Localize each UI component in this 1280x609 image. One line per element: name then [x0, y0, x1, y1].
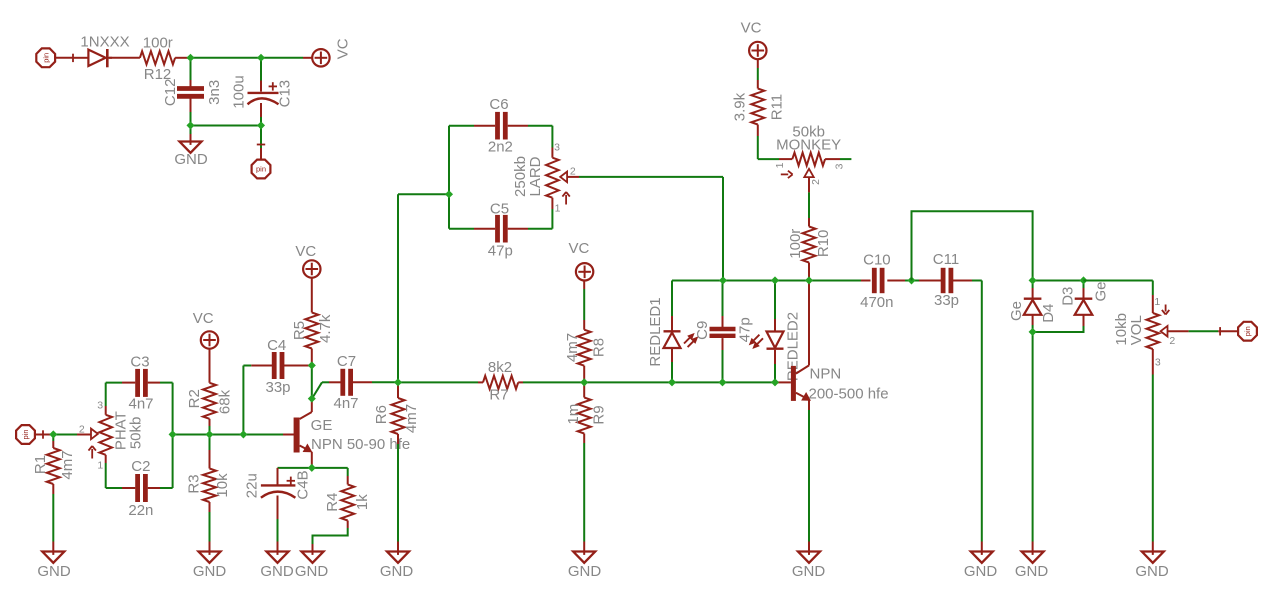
- capacitor C11 33p: [933, 251, 959, 309]
- wire bus to GE base: [243, 434, 283, 436]
- ground GND (diodes): [1015, 552, 1049, 581]
- svg-text:33p: 33p: [934, 292, 959, 309]
- svg-text:R8: R8: [590, 338, 607, 357]
- ground GND (VOL): [1135, 552, 1169, 581]
- svg-text:C7: C7: [337, 353, 356, 370]
- wire R12 to node VC1: [175, 57, 190, 59]
- wire bus segment C9-REDLED2: [723, 381, 776, 383]
- svg-text:MONKEY: MONKEY: [776, 137, 841, 154]
- capacitor C10 470n: [860, 252, 893, 312]
- wire long vertical to C7/R6 node: [397, 194, 399, 382]
- potentiometer PHAT 50kb: [79, 399, 145, 471]
- svg-text:R5: R5: [291, 321, 308, 340]
- wire left side of C6/C5 loop: [448, 126, 450, 229]
- svg-text:VC: VC: [335, 38, 352, 59]
- svg-text:NPN: NPN: [810, 366, 842, 383]
- wire LARD pin1 down: [551, 198, 553, 209]
- svg-text:1NXXX: 1NXXX: [80, 34, 129, 51]
- svg-text:C11: C11: [933, 251, 959, 268]
- wire input node to PHAT wiper: [53, 434, 77, 436]
- wire rail to GND symbol: [190, 126, 192, 135]
- wire node down to C12: [190, 58, 192, 80]
- wire collector node vertical: [311, 366, 313, 399]
- resistor R5 4.7k: [291, 313, 334, 349]
- wire rail down to R4: [347, 468, 349, 476]
- capacitor C4B 22u polarized: [244, 470, 312, 499]
- junction node at C13 top: [257, 54, 265, 62]
- wire ground rail: [191, 125, 262, 127]
- capacitor C3 4n7: [128, 353, 153, 412]
- svg-text:1m: 1m: [565, 404, 582, 425]
- svg-text:470n: 470n: [860, 294, 893, 311]
- ground GND (R4): [295, 552, 329, 581]
- wire rail down to output pin: [260, 126, 262, 149]
- svg-text:100u: 100u: [230, 75, 247, 108]
- wire C5 right lead: [528, 228, 552, 230]
- svg-text:pin: pin: [21, 429, 30, 439]
- junction node C4 branch: [239, 430, 247, 438]
- svg-text:2: 2: [79, 424, 85, 436]
- ground GND (R3): [193, 552, 227, 581]
- junction node at C12 bottom: [186, 121, 194, 129]
- svg-text:4n7: 4n7: [333, 395, 358, 412]
- wire C5 left lead: [474, 228, 495, 230]
- junction node diode bottoms: [1029, 328, 1037, 336]
- svg-text:R1: R1: [32, 455, 49, 474]
- wire REDLED2 to bus: [774, 350, 776, 364]
- junction node C4/R5: [308, 361, 316, 369]
- svg-text:VOL: VOL: [1128, 315, 1145, 345]
- wire VOL wiper to output pin: [1168, 330, 1189, 332]
- svg-text:GND: GND: [37, 563, 71, 580]
- wire C4 right lead: [284, 365, 312, 367]
- svg-text:D3: D3: [1060, 287, 1077, 306]
- svg-text:1k: 1k: [354, 494, 371, 510]
- junction node at C13 bottom: [257, 121, 265, 129]
- capacitor C5 47p: [488, 200, 513, 259]
- wire D3 bottom to node: [1083, 315, 1085, 326]
- resistor R10 100r: [787, 227, 832, 263]
- wire bus into C10: [861, 280, 871, 282]
- potentiometer LARD 250kb: [512, 141, 579, 214]
- wire bus segment REDLED1-C9: [672, 381, 723, 383]
- wire signal bus PHAT net to R2 node: [173, 434, 210, 436]
- wire C13 to ground rail: [260, 103, 262, 117]
- wire PHAT pin1 down to C2 row: [105, 455, 107, 463]
- wire LARD wiper to mixer bus: [579, 176, 723, 178]
- junction node at R12/VC: [186, 54, 194, 62]
- junction node emitter: [308, 464, 316, 472]
- led REDLED1: [647, 297, 698, 366]
- svg-text:GND: GND: [260, 563, 294, 580]
- wire VOL pin3 to GND: [1152, 349, 1154, 375]
- svg-text:Ge: Ge: [1093, 281, 1110, 301]
- resistor R8 4m7: [564, 330, 608, 366]
- wire bus R8 node to REDLED1 node: [584, 381, 672, 383]
- potentiometer MONKEY 50kb: [774, 124, 846, 185]
- wire feedback tap up and over to diode node: [912, 211, 1033, 280]
- svg-text:C9: C9: [694, 321, 711, 340]
- svg-text:2: 2: [1169, 335, 1175, 347]
- svg-text:GND: GND: [1015, 563, 1049, 580]
- wire bus R6 node to R7: [398, 381, 478, 383]
- junction node C9 bottom: [718, 378, 726, 386]
- wire C11 right lead down to GND: [952, 280, 972, 282]
- svg-text:4m7: 4m7: [403, 404, 420, 433]
- svg-text:GND: GND: [1135, 563, 1169, 580]
- svg-text:3: 3: [1155, 357, 1161, 369]
- capacitor C7 4n7: [333, 353, 358, 412]
- wire to LARD pin 3: [551, 126, 553, 148]
- ground GND (C4B): [260, 552, 294, 581]
- capacitor C9 47p: [694, 317, 754, 342]
- wire R7 to R8 node: [518, 381, 523, 383]
- wire VC to R11: [757, 59, 759, 68]
- svg-text:R9: R9: [590, 405, 607, 424]
- supply VC (R8 top): [568, 240, 593, 280]
- svg-text:8k2: 8k2: [488, 359, 512, 376]
- svg-text:47p: 47p: [736, 317, 753, 342]
- wire diode node to D4: [1032, 281, 1034, 289]
- svg-text:22u: 22u: [244, 473, 261, 498]
- svg-text:R4: R4: [324, 493, 341, 512]
- wire R6 to GND: [397, 434, 399, 444]
- svg-text:10k: 10k: [214, 473, 231, 498]
- wire loop to tone node: [398, 193, 449, 195]
- svg-text:GND: GND: [792, 563, 826, 580]
- svg-text:VC: VC: [193, 310, 214, 327]
- wire diode to R12: [109, 57, 140, 59]
- wire diode node to D3: [1033, 280, 1084, 282]
- junction node REDLED1 bottom: [668, 378, 676, 386]
- junction node D3 top: [1079, 276, 1087, 284]
- wire D4 to bottom node: [1032, 315, 1034, 325]
- supply VC (R5 top): [295, 243, 320, 278]
- wire C7 right lead to R6 node: [352, 381, 372, 383]
- svg-text:C12: C12: [162, 79, 179, 107]
- svg-text:33p: 33p: [265, 379, 290, 396]
- ground GND (top left): [174, 142, 208, 169]
- wire REDLED1 to bus: [671, 348, 673, 362]
- junction node bus/LARD tap: [719, 276, 727, 284]
- wire bus to NPN base: [775, 381, 791, 383]
- junction node R6/C7: [394, 378, 402, 386]
- capacitor C4 33p: [265, 337, 290, 396]
- wire R4 to GND jog: [347, 521, 349, 529]
- ground GND (NPN emitter): [792, 552, 826, 581]
- wire bus to C4 branch node: [210, 434, 244, 436]
- svg-text:pin: pin: [41, 53, 50, 63]
- ground GND (R9): [568, 552, 602, 581]
- svg-text:100r: 100r: [787, 229, 804, 259]
- wire PHAT pin3 up to C3 row: [105, 406, 107, 415]
- svg-text:3.9k: 3.9k: [731, 92, 748, 121]
- junction node input: [49, 430, 57, 438]
- capacitor C6 2n2: [488, 96, 513, 156]
- svg-text:C6: C6: [489, 96, 508, 113]
- wire C6 right lead: [508, 125, 528, 127]
- capacitor C2 22n: [128, 458, 153, 519]
- svg-text:LARD: LARD: [527, 156, 544, 196]
- supply VC (R11 top): [741, 19, 767, 59]
- wire C6 left lead: [449, 125, 474, 127]
- wire R10 to collector node: [808, 263, 810, 366]
- svg-text:R3: R3: [186, 474, 203, 493]
- wire node to VC supply: [191, 57, 304, 59]
- wire C9 top lead: [722, 281, 724, 317]
- wire C3/C2 right vertical: [172, 383, 174, 488]
- svg-text:3: 3: [834, 163, 846, 169]
- ground GND (C11): [964, 552, 998, 581]
- svg-text:47p: 47p: [488, 243, 513, 260]
- wire R2 to bus node: [209, 419, 211, 426]
- supply VC (R2 top): [193, 310, 218, 349]
- resistor R3 10k: [186, 469, 232, 503]
- svg-text:VC: VC: [741, 19, 762, 36]
- resistor R9 1m: [565, 398, 608, 434]
- wire C9 bottom lead: [722, 338, 724, 350]
- svg-text:VC: VC: [568, 240, 589, 257]
- junction node feedback tap: [907, 276, 915, 284]
- svg-text:1: 1: [1154, 296, 1160, 308]
- svg-text:2: 2: [570, 166, 576, 178]
- svg-text:4m7: 4m7: [59, 450, 76, 479]
- svg-text:R10: R10: [815, 230, 832, 258]
- svg-text:VC: VC: [295, 243, 316, 260]
- svg-text:2n2: 2n2: [488, 139, 513, 156]
- wire REDLED2 top lead: [774, 281, 776, 320]
- wire bus node to R3: [209, 435, 211, 451]
- wire rail down to C4B: [277, 468, 279, 486]
- wire C12 to ground rail: [190, 98, 192, 112]
- pin connector (input supply): [36, 48, 88, 67]
- pin connector (signal input): [16, 425, 53, 444]
- svg-text:D4: D4: [1040, 304, 1057, 323]
- svg-text:C3: C3: [130, 353, 149, 370]
- svg-text:GND: GND: [193, 563, 227, 580]
- wire C3 left lead: [106, 382, 122, 384]
- wire node to C13 top: [260, 58, 262, 81]
- wire MONKEY wiper to R10: [808, 177, 810, 192]
- wire C4 left lead: [243, 365, 251, 367]
- supply VC (top left): [312, 38, 351, 66]
- svg-text:100r: 100r: [143, 35, 173, 52]
- resistor R1 4m7: [32, 448, 76, 484]
- wire NPN emitter to GND: [808, 400, 810, 411]
- svg-text:50kb: 50kb: [127, 417, 144, 450]
- wire C2 right lead: [148, 487, 160, 489]
- capacitor C12 3n3: [162, 79, 223, 107]
- svg-text:pin: pin: [256, 165, 266, 174]
- svg-text:4m7: 4m7: [564, 333, 581, 362]
- svg-text:1: 1: [555, 203, 561, 215]
- svg-text:NPN 50-90 hfe: NPN 50-90 hfe: [311, 436, 410, 453]
- diode D3 Ge: [1060, 281, 1110, 314]
- wire C4 branch vertical: [242, 366, 244, 435]
- svg-text:4n7: 4n7: [128, 396, 153, 413]
- svg-text:C13: C13: [277, 80, 294, 108]
- svg-text:GE: GE: [311, 417, 333, 434]
- svg-text:R11: R11: [768, 94, 785, 120]
- svg-text:3: 3: [97, 399, 103, 411]
- junction node C3/C2 tap: [169, 430, 177, 438]
- resistor R12 100r: [140, 35, 175, 84]
- diode D4 Ge: [1008, 299, 1057, 323]
- svg-text:GND: GND: [174, 151, 208, 168]
- svg-text:C4B: C4B: [295, 470, 312, 499]
- svg-text:4.7k: 4.7k: [317, 314, 334, 343]
- resistor R6 4m7: [373, 382, 420, 434]
- resistor R2 68k: [186, 383, 234, 419]
- wire C4B to GND: [277, 496, 279, 520]
- wire C10 to C11 node: [887, 280, 905, 282]
- svg-text:C5: C5: [490, 200, 509, 217]
- svg-text:3n3: 3n3: [206, 80, 223, 105]
- wire R5 to collector node: [311, 349, 313, 366]
- pin connector (below C13): [252, 160, 271, 179]
- potentiometer VOL 10kb: [1113, 296, 1175, 368]
- svg-text:C2: C2: [131, 458, 150, 475]
- svg-text:pin: pin: [1243, 326, 1252, 336]
- wire R11 to MONKEY pin1: [757, 125, 759, 137]
- svg-text:3: 3: [554, 141, 560, 153]
- svg-text:2: 2: [810, 179, 822, 185]
- transistor NPN 200-500 hfe: [791, 365, 889, 402]
- wire emitter rail: [278, 467, 348, 469]
- wire D3 top lead: [1083, 281, 1085, 289]
- svg-text:22n: 22n: [128, 502, 153, 519]
- led REDLED2: [750, 312, 802, 381]
- junction node LARD loop tap: [445, 190, 453, 198]
- svg-text:1: 1: [97, 459, 103, 471]
- wire top bus corner to REDLED1: [671, 281, 673, 317]
- wire diode bottom node to GND: [1032, 332, 1034, 542]
- junction node GE collector: [308, 395, 316, 403]
- svg-text:REDLED1: REDLED1: [647, 297, 664, 366]
- wire VC to R8: [583, 281, 585, 290]
- wire VC to R5: [311, 278, 313, 313]
- svg-text:GND: GND: [964, 563, 998, 580]
- svg-text:GND: GND: [568, 563, 602, 580]
- wire R8 to bus node: [583, 366, 585, 383]
- resistor R4 1k: [324, 485, 371, 521]
- wire top bus: [672, 280, 861, 282]
- junction node R8/R9: [580, 378, 588, 386]
- junction node REDLED2 top: [771, 276, 779, 284]
- wire node diagonal to C7: [312, 382, 322, 398]
- transistor GE (NPN 50-90 hfe): [294, 399, 411, 468]
- junction node REDLED2 bottom: [771, 378, 779, 386]
- svg-text:R7: R7: [489, 387, 508, 404]
- wire R9 to GND: [583, 434, 585, 444]
- junction node R10/collector: [805, 276, 813, 284]
- svg-text:68k: 68k: [217, 389, 234, 414]
- svg-text:C10: C10: [863, 252, 891, 269]
- junction node R2/R3: [205, 430, 213, 438]
- wire C3 right lead: [148, 382, 160, 384]
- svg-text:C4: C4: [267, 337, 286, 354]
- resistor R7 8k2: [483, 359, 518, 404]
- wire bus node to R9: [583, 382, 585, 397]
- wire VC to R2: [209, 349, 211, 383]
- svg-text:R2: R2: [186, 389, 203, 408]
- ground GND (R6): [380, 552, 414, 581]
- junction node D4 top: [1029, 276, 1037, 284]
- svg-text:GND: GND: [295, 563, 329, 580]
- wire MONKEY pin3 stub: [825, 158, 840, 160]
- wire R3 to GND: [209, 502, 211, 512]
- svg-text:R6: R6: [373, 405, 390, 424]
- wire C2 left lead: [106, 487, 122, 489]
- svg-text:GND: GND: [380, 563, 414, 580]
- ground GND (R1): [37, 552, 71, 581]
- wire bus to VOL pin1: [1084, 280, 1153, 282]
- svg-text:Ge: Ge: [1008, 301, 1025, 321]
- diode 1NXXX: [80, 34, 129, 68]
- svg-text:1: 1: [774, 162, 786, 168]
- wire input node down to R1: [52, 435, 54, 442]
- capacitor C13 100u polarized: [230, 75, 293, 108]
- pin connector (output): [1238, 322, 1257, 341]
- wire R1 to GND: [52, 484, 54, 494]
- svg-text:200-500 hfe: 200-500 hfe: [809, 385, 889, 402]
- resistor R11 3.9k: [731, 89, 785, 125]
